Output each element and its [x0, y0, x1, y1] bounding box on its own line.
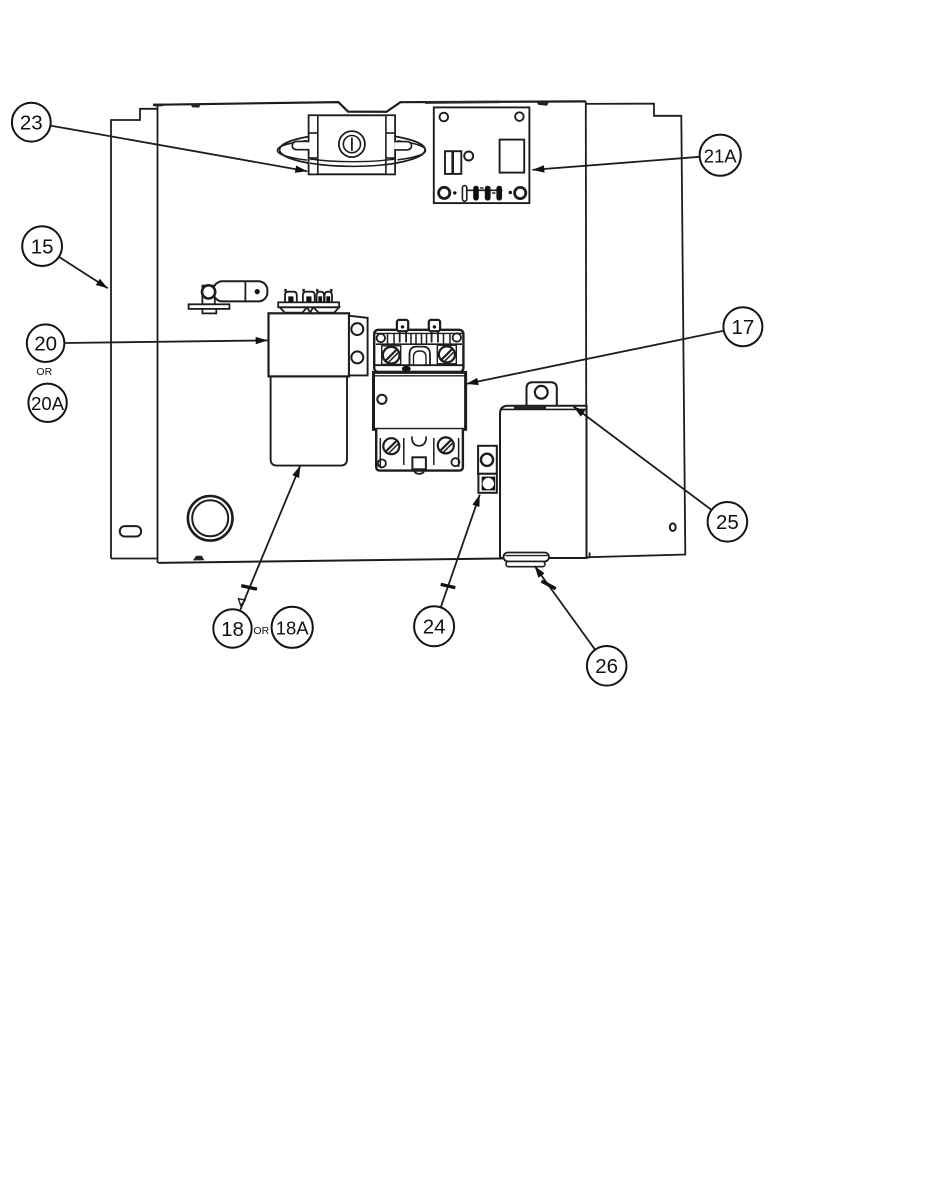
svg-text:OR: OR: [253, 625, 269, 637]
svg-text:15: 15: [31, 235, 54, 258]
svg-text:21A: 21A: [704, 146, 738, 167]
svg-text:18: 18: [221, 618, 244, 641]
svg-text:OR: OR: [36, 366, 52, 378]
svg-text:23: 23: [20, 112, 43, 135]
svg-text:18A: 18A: [276, 618, 310, 639]
svg-text:17: 17: [731, 316, 754, 339]
svg-text:26: 26: [595, 655, 618, 678]
svg-text:24: 24: [423, 616, 446, 639]
svg-text:20: 20: [34, 333, 57, 356]
svg-text:25: 25: [716, 511, 739, 534]
svg-text:20A: 20A: [31, 393, 65, 414]
